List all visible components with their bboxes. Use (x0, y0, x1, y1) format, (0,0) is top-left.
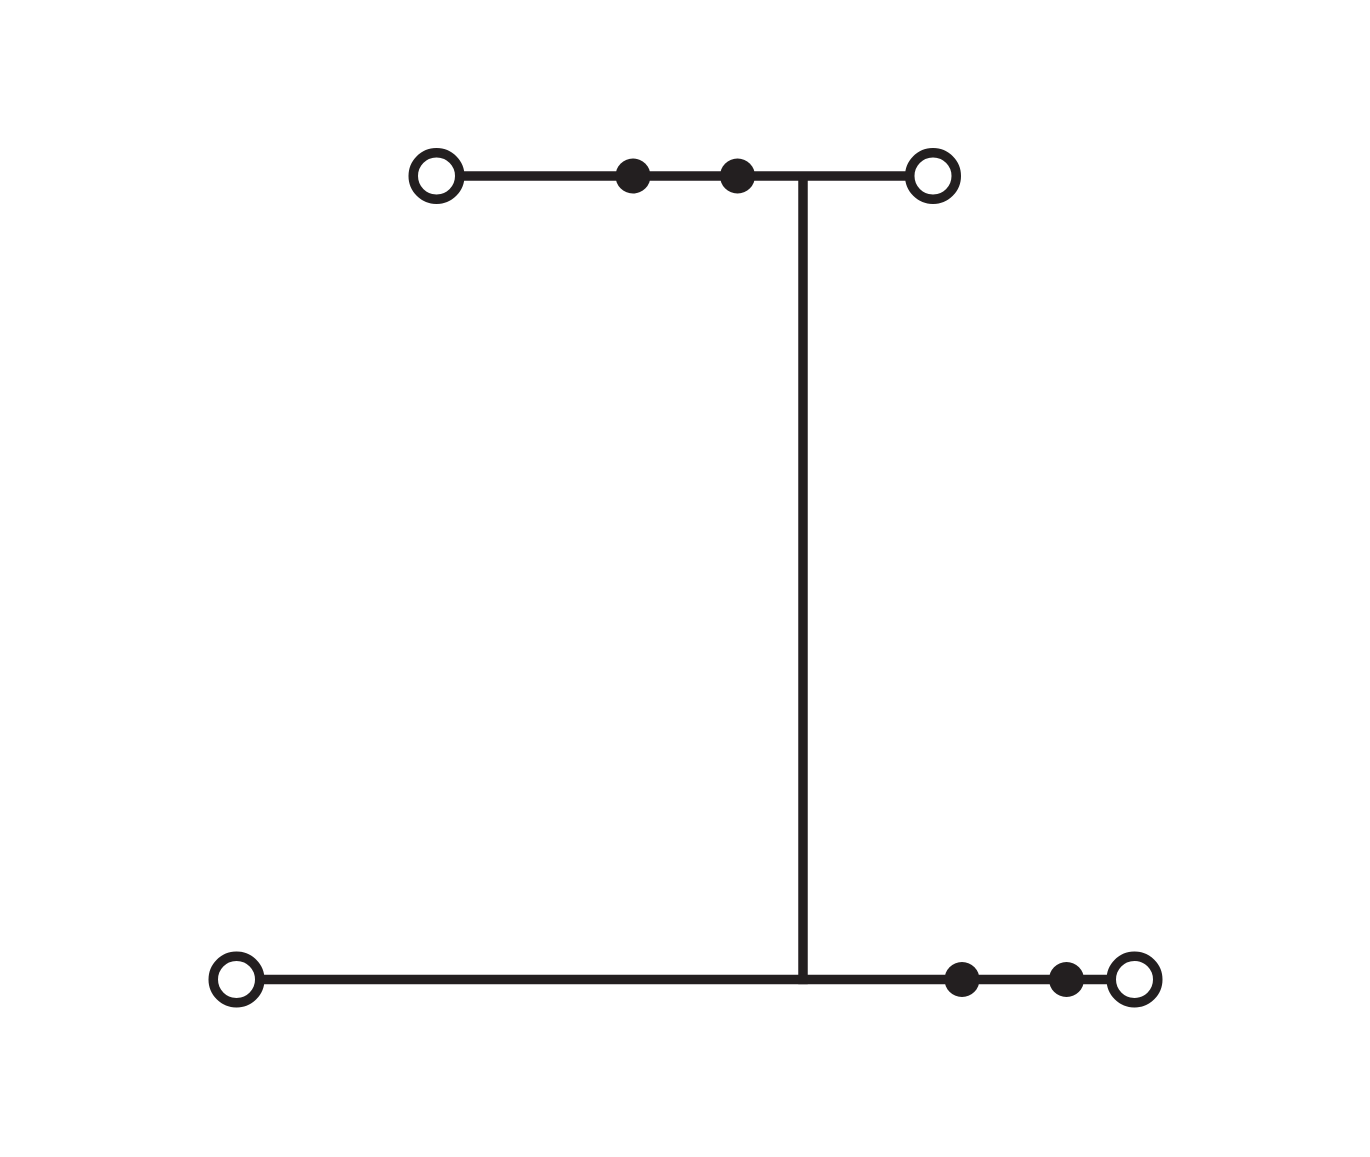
contact dot: upper rail right (720, 159, 755, 194)
contact dot: upper rail left (616, 159, 651, 194)
terminal: upper-left clamping point (413, 153, 460, 200)
wire: lower rail (237, 975, 1135, 985)
terminal: lower-left clamping point (213, 956, 260, 1003)
contact dot: lower rail left (945, 962, 980, 997)
wire: vertical link between upper and lower rail (798, 176, 808, 984)
contact dot: lower rail right (1049, 962, 1084, 997)
terminal: lower-right clamping point (1111, 956, 1158, 1003)
wire: upper rail (437, 171, 934, 181)
terminal: upper-right clamping point (910, 153, 957, 200)
